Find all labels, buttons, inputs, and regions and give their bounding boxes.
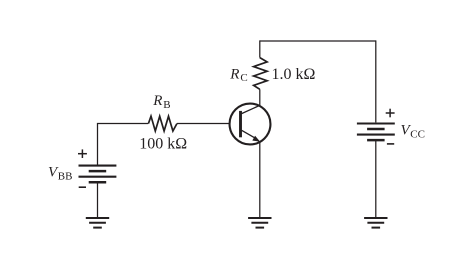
resistor RC (254, 58, 268, 90)
svg-text:B: B (163, 99, 170, 111)
wire VCC to ground (375, 141, 377, 217)
ground G2 (emitter) (248, 218, 271, 228)
svg-text:C: C (240, 72, 247, 84)
transistor Q1 (230, 104, 271, 145)
wire RC bottom to collector (259, 89, 261, 106)
battery VCC (357, 124, 395, 141)
wire top horizontal (260, 40, 376, 42)
wire emitter to ground (259, 142, 261, 217)
plus VCC (386, 109, 395, 118)
wire RB right to base (177, 123, 230, 125)
plus VBB (78, 149, 87, 158)
svg-text:100 kΩ: 100 kΩ (139, 136, 187, 153)
svg-text:1.0 kΩ: 1.0 kΩ (272, 66, 316, 83)
wire right vertical to VCC (375, 40, 377, 122)
resistor RB (148, 116, 177, 131)
minus VCC (387, 143, 394, 145)
ground G3 (VCC) (364, 218, 387, 228)
minus VBB (79, 186, 86, 188)
svg-text:CC: CC (410, 128, 425, 140)
ground G1 (VBB) (86, 218, 109, 228)
wire RC top stub (259, 40, 261, 57)
svg-text:R: R (229, 66, 239, 82)
svg-text:R: R (152, 93, 162, 109)
battery VBB (79, 166, 117, 183)
wire VBB up and base left segment (98, 124, 149, 166)
wire VBB to ground (97, 183, 99, 217)
svg-text:BB: BB (58, 170, 73, 182)
